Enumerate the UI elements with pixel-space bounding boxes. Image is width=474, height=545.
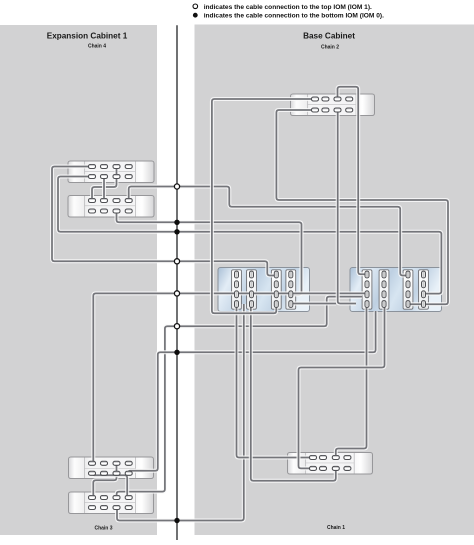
svg-text:Expansion Cabinet 1: Expansion Cabinet 1 bbox=[47, 32, 128, 41]
controller 1 box bbox=[218, 268, 310, 312]
svg-text:indicates the cable connection: indicates the cable connection to the bo… bbox=[204, 13, 384, 20]
cable Z4 shelf L3 to shelf L4 bbox=[93, 473, 127, 497]
disk shelf L1 (expansion) box bbox=[68, 161, 154, 183]
trunk interconnect line bbox=[176, 25, 178, 540]
disk shelf L3 (expansion) box bbox=[69, 457, 154, 479]
disk shelf L4 (expansion) ports bbox=[89, 495, 133, 509]
cable U controller1 to trunk to shelf L4 IOM0 bbox=[117, 304, 244, 521]
cable X top shelf IOM1 to controller1 bbox=[212, 99, 315, 313]
disk shelf bottom (base) ports bbox=[310, 455, 351, 470]
cable AA controller1 to controller2 area bbox=[291, 302, 336, 306]
cable R shelf L3 IOM1 to trunk to controller2 bbox=[93, 293, 367, 463]
disk shelf top (base) ports bbox=[312, 97, 353, 112]
cable W controller1 to bottom shelf IOM0 bbox=[251, 304, 336, 481]
disk shelf top (base) box bbox=[291, 94, 375, 116]
cable P shelf L2 IOM1 to trunk to controller2 bbox=[129, 187, 408, 276]
cable T shelf L3 IOM0 to trunk to controller2 bbox=[129, 311, 376, 473]
cable AC controller2 to bottom shelf IOM0 bbox=[299, 306, 385, 468]
trunk node filled y=222.3 bbox=[174, 220, 179, 225]
svg-text:Chain 1: Chain 1 bbox=[327, 525, 345, 531]
cable Z2 shelf L1 to shelf L2 bbox=[102, 177, 106, 201]
legend open-circle symbol bbox=[193, 4, 198, 9]
disk shelf L1 (expansion) ports bbox=[89, 165, 133, 179]
cable C shelf L2 IOM0 to trunk to controller1 bbox=[117, 211, 302, 295]
cable Z1 shelf L1 to shelf L2 bbox=[92, 167, 117, 201]
cable B shelf L1 IOM0 to trunk to controller2 bbox=[58, 177, 441, 294]
trunk node open y=293.4 bbox=[174, 291, 179, 296]
trunk node filled y=352.3 bbox=[174, 350, 179, 355]
controller 2 ports bbox=[365, 271, 426, 307]
cable AB bottom shelf IOM1 to controller2 bbox=[336, 306, 367, 458]
legend filled-circle symbol bbox=[193, 13, 198, 18]
svg-text:Chain 4: Chain 4 bbox=[88, 44, 106, 50]
trunk node open y=261.3 bbox=[174, 259, 179, 264]
svg-text:Chain 3: Chain 3 bbox=[94, 526, 112, 532]
disk shelf L2 (expansion) box bbox=[68, 196, 154, 218]
trunk node open y=326.2 bbox=[174, 324, 179, 329]
disk shelf bottom (base) box bbox=[288, 453, 373, 475]
cable Z top shelf IOM0 to controller2 bbox=[338, 110, 356, 304]
svg-text:Base Cabinet: Base Cabinet bbox=[303, 32, 355, 41]
svg-text:Chain 2: Chain 2 bbox=[321, 45, 339, 51]
cable Z3 shelf L3 to shelf L4 bbox=[93, 463, 116, 497]
disk shelf L2 (expansion) ports bbox=[89, 198, 133, 213]
cable Y top shelf IOM1 loop to controller2 bbox=[338, 87, 368, 275]
cable V controller1 to bottom shelf IOM1 bbox=[237, 304, 314, 458]
svg-text:indicates the cable connection: indicates the cable connection to the to… bbox=[204, 4, 372, 11]
disk shelf L3 (expansion) ports bbox=[89, 461, 133, 475]
trunk node filled y=231.8 bbox=[174, 229, 179, 234]
trunk node filled y=520.5 bbox=[174, 518, 179, 523]
cable Q top shelf IOM0 to controller2 bbox=[276, 110, 448, 304]
Base Cabinet panel bbox=[195, 25, 474, 536]
cable A shelf L1 IOM1 to trunk to controller1 bbox=[52, 167, 276, 276]
controller 2 box bbox=[350, 268, 442, 312]
cable S shelf L4 IOM1 to trunk to controller bbox=[117, 297, 362, 498]
controller 1 ports bbox=[235, 271, 293, 307]
disk shelf L4 (expansion) box bbox=[69, 492, 154, 514]
Expansion Cabinet 1 panel bbox=[0, 25, 157, 535]
trunk node open y=186.5 bbox=[174, 184, 179, 189]
